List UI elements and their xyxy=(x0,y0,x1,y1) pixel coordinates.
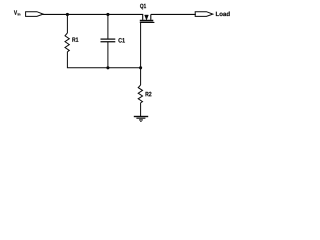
wire R1 top stub xyxy=(66,14,68,33)
wire C1 bottom stub xyxy=(107,42,109,68)
channel bar xyxy=(140,20,154,22)
wire top rail Vin to Q1 source xyxy=(43,13,144,15)
resistor R1 xyxy=(65,33,69,52)
wire bottom rail xyxy=(108,67,141,69)
resistor R2 xyxy=(138,85,142,103)
port Vin connector xyxy=(26,12,44,17)
node junction dot C1/bottom rail xyxy=(106,66,109,69)
label R2 xyxy=(146,92,152,96)
label Load xyxy=(216,11,230,16)
transistor Q1 PMOS xyxy=(140,14,155,67)
node junction dot gate/bottom rail xyxy=(139,66,142,69)
gate bar xyxy=(140,21,155,23)
wire C1 top stub xyxy=(107,14,109,39)
wire Q1 drain to Load xyxy=(151,13,196,15)
wire gate node to R2 xyxy=(140,68,142,85)
wire R1 bottom stub to bottom rail corner xyxy=(67,52,108,68)
transistor Q1 label xyxy=(140,4,146,10)
ground xyxy=(134,117,148,122)
source stub xyxy=(142,14,144,19)
capacitor C1 xyxy=(101,38,116,40)
gate lead xyxy=(140,22,142,67)
label R1 xyxy=(72,37,78,41)
node junction dot C1/top rail xyxy=(106,13,109,16)
wire R2 to ground xyxy=(140,103,142,116)
node Vin label xyxy=(14,10,20,15)
body arrow xyxy=(145,15,149,20)
node junction dot R1/top rail xyxy=(66,13,69,16)
port Load connector xyxy=(195,12,213,17)
drain stub xyxy=(150,14,152,19)
label C1 xyxy=(118,38,124,42)
